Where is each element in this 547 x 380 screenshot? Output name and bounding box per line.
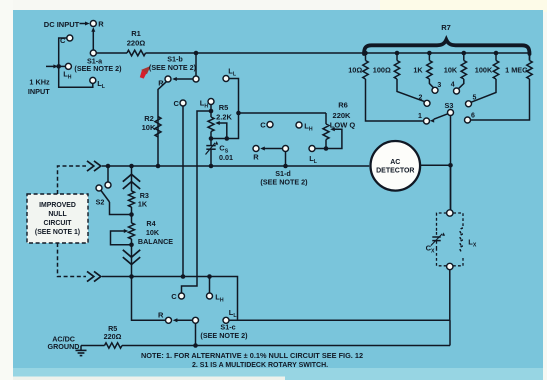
label S1-d <box>275 169 291 178</box>
wire: lower bus right run to CX column <box>229 319 450 321</box>
wire: 100K bottom to contact 5 <box>471 79 496 102</box>
svg-text:(SEE NOTE 2): (SEE NOTE 2) <box>260 178 308 187</box>
resistor R2 <box>155 117 161 138</box>
svg-text:220Ω: 220Ω <box>104 332 122 341</box>
svg-text:DETECTOR: DETECTOR <box>376 167 414 174</box>
switch S1-b contact C <box>173 99 186 108</box>
label S1-c <box>220 322 235 331</box>
junction: R3 column at middle bus <box>129 164 134 169</box>
wire: R6 top <box>325 113 327 124</box>
switch S1-b wiper with arrow <box>172 53 199 82</box>
switch S1-b contact R <box>158 76 171 87</box>
svg-text:100Ω: 100Ω <box>373 65 391 74</box>
switch S3 wiper arm <box>430 110 454 123</box>
junction: C column at lower bus <box>181 274 186 279</box>
switch S1-d contact R <box>253 146 259 162</box>
svg-text:C: C <box>171 292 177 301</box>
resistor R1 <box>127 50 146 56</box>
junction: R6 bottom at LL wire <box>324 146 329 151</box>
capacitor CS labels <box>219 143 233 161</box>
svg-text:220K: 220K <box>333 111 352 120</box>
svg-text:NULL: NULL <box>48 211 66 218</box>
wire: junction to R6 top <box>239 112 327 114</box>
svg-text:BALANCE: BALANCE <box>138 237 173 246</box>
potentiometer R4 BALANCE <box>129 219 174 246</box>
node: CX-LX bottom terminal <box>447 263 453 269</box>
switch S3 contact 2 <box>419 94 430 106</box>
svg-text:10K: 10K <box>146 228 160 237</box>
svg-text:1 KHz: 1 KHz <box>29 77 50 86</box>
label S3 <box>445 101 454 110</box>
wire: input to contact C <box>59 38 67 66</box>
junction: 100K top of bus <box>494 51 499 56</box>
switch S3 contact 4 <box>451 82 460 94</box>
svg-text:(SEE NOTE 2): (SEE NOTE 2) <box>200 331 248 340</box>
switch S1-d contact LL <box>309 146 318 166</box>
resistor 100&#937; of R7 bank <box>373 53 400 79</box>
resistor 1K of R7 bank <box>413 53 432 79</box>
wire: dashed link box to lower bus <box>58 243 87 277</box>
potentiometer R5 <box>208 117 214 132</box>
wire: LH junction jog down to S1-c C contact <box>182 111 212 293</box>
svg-text:DC INPUT: DC INPUT <box>44 20 80 29</box>
note text line 1 <box>141 351 363 360</box>
svg-text:(SEE NOTE 2): (SEE NOTE 2) <box>149 63 197 72</box>
svg-text:S3: S3 <box>445 101 454 110</box>
svg-text:1: 1 <box>418 113 422 120</box>
svg-text:10K: 10K <box>444 65 458 74</box>
node: 1 KHz INPUT label <box>28 77 50 96</box>
block: IMPROVED NULL CIRCUIT (dashed box) <box>27 194 88 243</box>
junction: S2 column at middle bus <box>106 164 111 169</box>
node: CX-LX top terminal <box>447 210 453 216</box>
potentiometer R6 <box>323 124 329 140</box>
potentiometer R5 labels <box>216 103 232 121</box>
svg-text:2. S1 IS A MULTIDECK ROTARY SW: 2. S1 IS A MULTIDECK ROTARY SWITCH. <box>192 362 328 369</box>
break chevrons above R3 <box>123 174 140 189</box>
wire: 10K bottom to contact 4 <box>459 79 464 88</box>
svg-text:S2: S2 <box>96 198 105 207</box>
wire: 1 MEG bottom to contact 6 <box>471 79 530 120</box>
switch S1-a contact C <box>60 35 73 45</box>
brace over R7 bank <box>364 40 530 54</box>
switch S3 contact 3 <box>432 82 441 93</box>
junction: 1K top of bus <box>427 51 432 56</box>
svg-text:R1: R1 <box>131 29 141 38</box>
junction: S1-c LH at lower bus <box>207 274 212 279</box>
junction at R1 / S1-b wiper <box>194 51 199 56</box>
junction: S2 arm at R3-R4 <box>129 212 134 217</box>
wire: R5 bottom <box>210 132 212 139</box>
svg-text:R7: R7 <box>441 23 451 32</box>
note text line 2 <box>192 362 328 369</box>
junction: R3R4 column at lower bus <box>129 274 134 279</box>
wire: top bus to range resistors R7 <box>196 52 530 54</box>
label (SEE NOTE 2) for S1-a <box>74 64 122 73</box>
svg-text:220Ω: 220Ω <box>127 39 146 48</box>
resistor R5 (220 ohm) labels <box>104 324 122 341</box>
wire: CX-LX bottom down to ground bus <box>449 270 451 346</box>
ground symbol <box>76 346 87 356</box>
switch S1-c contact LH <box>207 277 224 304</box>
switch S1-c wiper with arrow <box>173 317 199 345</box>
switch S1-c contact LL <box>223 308 237 323</box>
wire: 10 ohm bottom to contact 1 <box>366 79 424 121</box>
label S1-b <box>167 54 183 63</box>
wire: ground bus left <box>81 345 105 347</box>
svg-text:(SEE NOTE 2): (SEE NOTE 2) <box>74 64 122 73</box>
switch S1-a contact LH <box>63 63 72 80</box>
label AC/DC GROUND <box>48 334 80 351</box>
corner: 1 MEG top <box>529 53 531 61</box>
switch S1-b contact LH <box>200 98 214 109</box>
wire: S1-b C contact column <box>182 106 184 276</box>
svg-text:10Ω: 10Ω <box>348 65 362 74</box>
wire: lower bus <box>102 277 238 321</box>
switch S3 contact 6 <box>465 112 476 123</box>
switch S1-d contact C <box>260 120 273 129</box>
resistor R5 (220 ohm) <box>105 343 123 348</box>
svg-text:INPUT: INPUT <box>28 87 50 96</box>
wire: S1-d LL to R6 wiper <box>315 131 342 149</box>
switch S1-b contact LL <box>223 66 237 81</box>
junction below S1-b LH <box>209 109 214 114</box>
label S1-a <box>87 57 103 66</box>
resistor 10K of R7 bank <box>444 53 467 79</box>
svg-text:100K: 100K <box>475 65 493 74</box>
svg-text:C: C <box>60 36 66 45</box>
meter U1: AC DETECTOR <box>371 141 421 191</box>
switch S1-a contact LL <box>90 77 106 89</box>
svg-text:R: R <box>98 19 104 28</box>
switch S1-d contact LH <box>296 122 313 133</box>
svg-text:1K: 1K <box>413 65 423 74</box>
svg-text:R: R <box>158 311 164 320</box>
switch S1-c contact C <box>171 292 184 301</box>
switch S1-c contact R <box>132 277 172 324</box>
resistor 1 MEG of R7 bank <box>505 53 532 79</box>
break chevrons on middle bus <box>87 161 101 171</box>
svg-text:C: C <box>260 120 266 129</box>
junction: R4 wiper tie <box>129 243 134 248</box>
svg-text:6: 6 <box>471 112 475 119</box>
resistor R2 labels <box>142 114 156 132</box>
capacitor CX (unknown, variable) <box>426 232 445 255</box>
junction: 10K top of bus <box>462 51 467 56</box>
junction: CS at lower bus <box>209 164 214 169</box>
svg-text:1K: 1K <box>138 200 148 209</box>
wire: detector node down to CX-LX <box>450 165 452 210</box>
junction: S1-c wiper at ground bus <box>193 343 198 348</box>
svg-text:CIRCUIT: CIRCUIT <box>44 220 73 227</box>
break chevrons on lower bus <box>87 271 101 281</box>
svg-text:IMPROVED: IMPROVED <box>39 202 76 209</box>
wire: S1-a wiper to R1 <box>96 52 127 54</box>
svg-text:R5: R5 <box>219 103 229 112</box>
wire: S3 wiper down to detector node <box>450 116 452 210</box>
wire: 100 ohm bottom to contact 2 <box>397 79 425 102</box>
switch S2 <box>96 166 132 215</box>
wire: R1 to S1-b junction <box>146 52 197 54</box>
potentiometer R4 wiper <box>111 229 132 245</box>
svg-text:2: 2 <box>419 94 423 101</box>
wire: detector to right column <box>420 164 450 166</box>
resistor R1 value labels <box>127 29 146 48</box>
svg-text:2.2K: 2.2K <box>216 112 232 121</box>
junction: S1-d wiper at bus <box>283 164 288 169</box>
svg-text:S1-c: S1-c <box>220 322 235 331</box>
svg-text:0.01: 0.01 <box>219 153 233 162</box>
wire: input to contact LH <box>59 65 65 67</box>
wire: input to contact LL <box>59 66 93 87</box>
resistor 100K of R7 bank <box>475 53 499 79</box>
label (SEE NOTE 2) for S1-c <box>200 331 248 340</box>
svg-text:R6: R6 <box>338 100 348 109</box>
svg-text:R2: R2 <box>144 114 154 123</box>
wire: R4 to lower bus <box>131 239 133 277</box>
switch S1-d wiper with arrow <box>260 146 288 167</box>
wire: R6 bottom <box>325 140 327 149</box>
junction: 10&#937; top of bus <box>363 51 368 56</box>
potentiometer R6 labels <box>330 100 356 129</box>
resistor R3 <box>129 191 149 209</box>
potentiometer R5 wiper <box>215 121 227 139</box>
break chevrons below R4 <box>123 250 140 265</box>
switch S3 contact 1 <box>418 113 429 124</box>
label (SEE NOTE 2) for S1-b <box>149 63 197 72</box>
junction: 100&#937; top of bus <box>395 51 400 56</box>
wire: dashed link box to middle bus <box>58 166 87 194</box>
svg-text:(SEE NOTE 1): (SEE NOTE 1) <box>35 229 80 236</box>
svg-text:GROUND: GROUND <box>48 342 80 351</box>
svg-text:C: C <box>173 99 179 108</box>
resistor 10&#937; of R7 bank <box>348 53 368 79</box>
svg-text:S1-b: S1-b <box>167 54 183 63</box>
svg-text:10K: 10K <box>142 123 156 132</box>
junction: R2 at lower bus <box>156 164 161 169</box>
svg-text:R: R <box>253 152 259 161</box>
junction: R5 bottom tie <box>209 136 229 141</box>
svg-text:S1-d: S1-d <box>275 169 291 178</box>
svg-text:AC: AC <box>390 159 400 166</box>
capacitor CS (variable) <box>206 139 219 167</box>
potentiometer R6 wiper <box>330 127 342 131</box>
wire: junction down to R5 bottom <box>211 113 239 139</box>
svg-text:5: 5 <box>473 95 477 102</box>
node: DC INPUT label and arrow <box>44 20 90 29</box>
wire: ground bus right <box>122 345 450 347</box>
wire: 1K bottom to contact 3 <box>429 79 433 88</box>
svg-text:NOTE: 1. FOR ALTERNATIVE ± 0.: NOTE: 1. FOR ALTERNATIVE ± 0.1% NULL CIR… <box>141 351 363 360</box>
annotation: red cursor arrow <box>140 66 151 79</box>
switch S1-a wiper <box>90 27 96 56</box>
switch S1-a contact R <box>90 19 104 28</box>
wire: S1-b LL to R6 feed <box>229 79 238 114</box>
svg-text:1 MEG: 1 MEG <box>505 65 528 74</box>
switch S3 contact 5 <box>466 95 477 107</box>
junction below S1-b LL <box>236 111 241 116</box>
wire: LH contact to R5 <box>210 105 212 117</box>
wire: R3 to R4 <box>131 207 133 223</box>
inductor LX (unknown) <box>460 228 477 252</box>
svg-text:R4: R4 <box>146 219 155 228</box>
junction: right column at detector <box>448 163 453 168</box>
block: dashed unknown box <box>437 213 464 266</box>
svg-text:3: 3 <box>437 82 441 89</box>
wire: R3 column from middle bus <box>131 166 133 191</box>
wire: middle bus to AC detector <box>102 165 369 167</box>
label (SEE NOTE 2) for S1-d <box>260 178 308 187</box>
svg-text:4: 4 <box>451 82 455 89</box>
wire: S1-b R contact down to R2 <box>158 82 167 166</box>
label R7 <box>441 23 451 32</box>
wire: 1 kHz input lead with arrow <box>46 64 61 69</box>
